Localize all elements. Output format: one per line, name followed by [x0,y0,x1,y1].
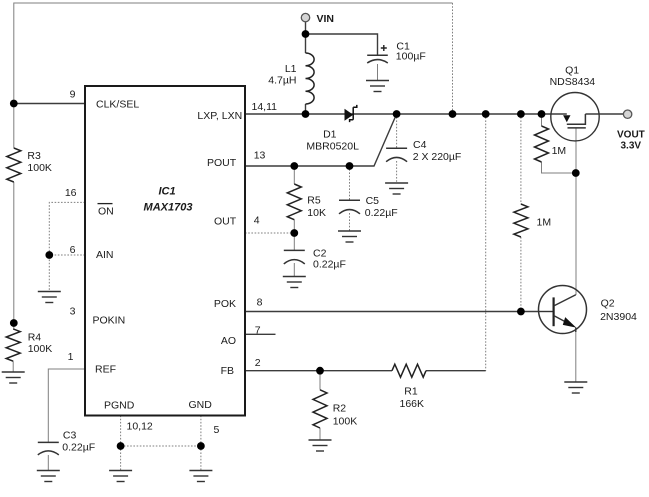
svg-text:14,11: 14,11 [252,101,278,113]
svg-text:REF: REF [95,364,116,376]
svg-text:POUT: POUT [207,157,237,169]
svg-text:GND: GND [189,399,213,411]
svg-text:CLK/SEL: CLK/SEL [96,99,139,111]
svg-text:9: 9 [70,89,76,101]
svg-text:VIN: VIN [317,13,335,25]
svg-text:1M: 1M [552,145,567,157]
svg-text:PGND: PGND [104,400,135,412]
svg-text:POK: POK [214,298,236,310]
svg-text:D1: D1 [323,129,337,141]
svg-text:3: 3 [70,306,76,318]
svg-text:AO: AO [221,335,236,347]
svg-text:7: 7 [255,324,261,336]
svg-text:POKIN: POKIN [93,315,126,327]
svg-text:Q2: Q2 [601,298,615,310]
svg-text:IC1: IC1 [158,186,175,198]
svg-text:16: 16 [65,187,77,199]
svg-text:2N3904: 2N3904 [600,311,637,323]
svg-text:NDS8434: NDS8434 [550,76,596,88]
svg-text:AIN: AIN [96,249,114,261]
svg-text:100µF: 100µF [396,51,426,63]
svg-text:OUT: OUT [214,216,237,228]
svg-text:4: 4 [254,214,260,226]
svg-text:R4: R4 [28,331,42,343]
svg-text:2 X 220µF: 2 X 220µF [413,151,462,163]
svg-text:Q1: Q1 [565,65,579,77]
svg-text:1M: 1M [537,217,552,229]
svg-text:8: 8 [257,296,263,308]
svg-text:R1: R1 [404,386,418,398]
svg-text:13: 13 [254,150,266,162]
svg-text:0.22µF: 0.22µF [62,441,95,453]
svg-text:100K: 100K [333,416,358,428]
svg-text:6: 6 [70,244,76,256]
svg-text:100K: 100K [28,343,53,355]
svg-text:C5: C5 [366,195,380,207]
svg-text:MAX1703: MAX1703 [144,202,193,214]
svg-text:ON: ON [98,206,114,218]
svg-text:166K: 166K [400,398,425,410]
svg-text:R3: R3 [27,150,41,162]
svg-text:R5: R5 [307,195,321,207]
svg-text:10K: 10K [307,207,326,219]
svg-text:VOUT: VOUT [617,129,645,140]
svg-text:4.7µH: 4.7µH [268,74,296,86]
svg-text:3.3V: 3.3V [621,141,642,152]
svg-text:LXP, LXN: LXP, LXN [197,110,242,122]
svg-text:C4: C4 [413,139,427,151]
svg-text:R2: R2 [333,402,347,414]
svg-text:MBR0520L: MBR0520L [306,141,359,153]
svg-text:2: 2 [255,357,261,369]
svg-text:5: 5 [214,424,220,436]
svg-text:10,12: 10,12 [127,420,153,432]
svg-text:C3: C3 [63,430,77,442]
svg-text:FB: FB [221,365,234,377]
svg-text:1: 1 [68,351,74,363]
svg-text:100K: 100K [27,162,52,174]
svg-text:0.22µF: 0.22µF [313,259,346,271]
svg-text:0.22µF: 0.22µF [365,207,398,219]
